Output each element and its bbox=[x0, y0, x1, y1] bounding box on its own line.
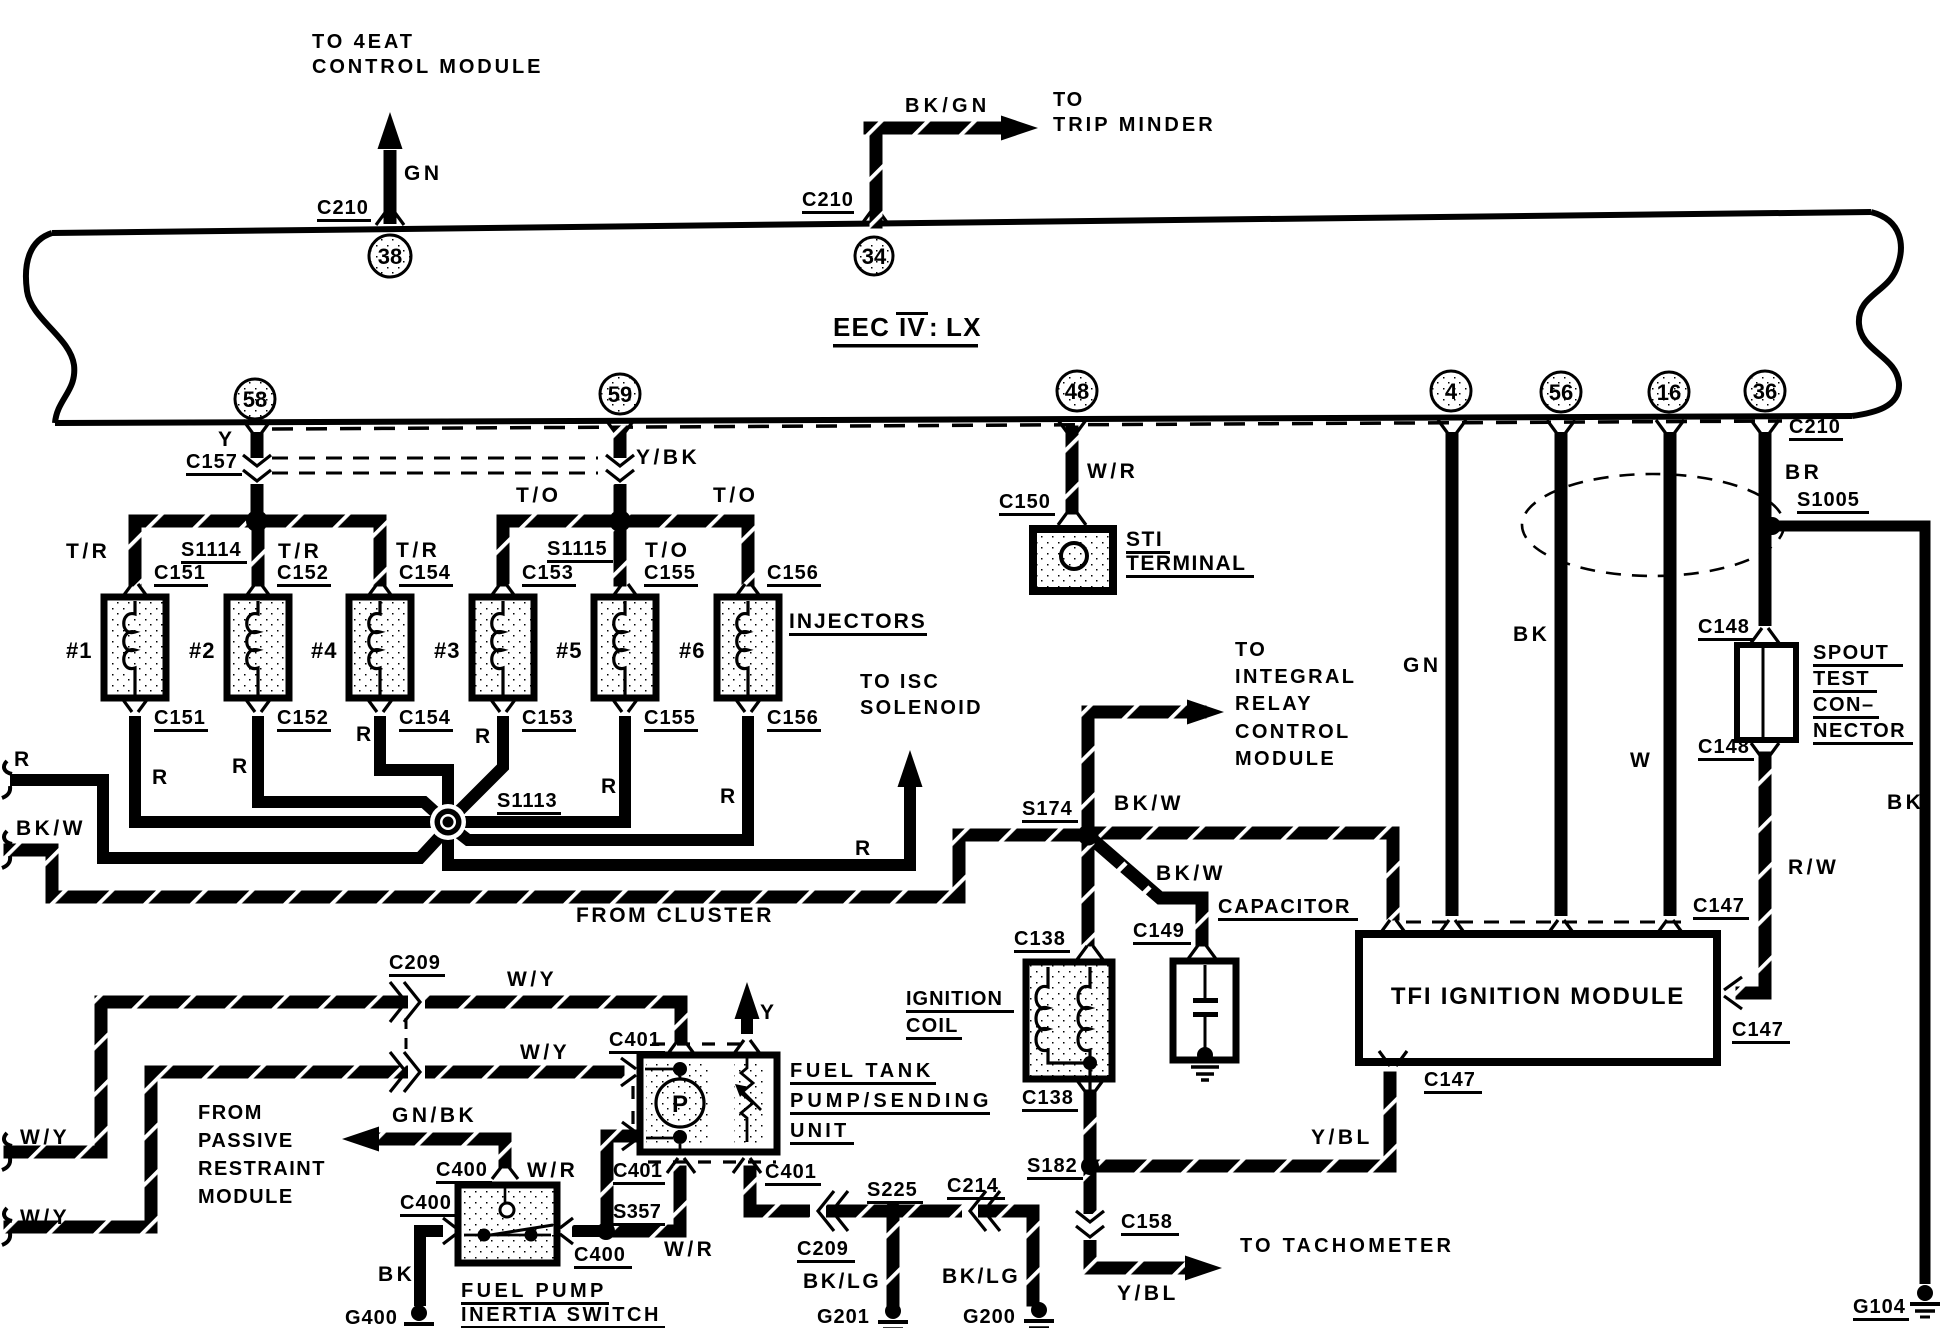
svg-text:C152: C152 bbox=[277, 562, 329, 584]
connector label C138 (bottom) bbox=[1022, 1087, 1078, 1112]
ground label G104 bbox=[1853, 1296, 1909, 1321]
label Y bbox=[218, 428, 236, 451]
wire BK from S1005 to ground G104 bbox=[1770, 526, 1925, 1284]
wire R from injector #4 bbox=[380, 716, 448, 810]
wire GN/BK to passive restraint module bbox=[342, 1127, 512, 1169]
svg-text:C154: C154 bbox=[399, 562, 451, 584]
label R (left entry) bbox=[14, 748, 33, 771]
label R (injector 4) bbox=[356, 723, 375, 746]
connector C400 symbol (switch top) bbox=[492, 1166, 518, 1179]
connector label C149 bbox=[1133, 920, 1191, 945]
wire W from pin 16 to TFI module bbox=[1664, 432, 1677, 916]
svg-text:GN/BK: GN/BK bbox=[392, 1104, 477, 1127]
label W/Y (mid lower) bbox=[520, 1041, 570, 1064]
injector #4 (fuel injector coil) bbox=[349, 597, 411, 698]
svg-text:TRIP MINDER: TRIP MINDER bbox=[1053, 114, 1216, 136]
label TO TRIP MINDER bbox=[1053, 89, 1216, 136]
ground label G200 bbox=[963, 1306, 1019, 1328]
label R (injector 6) bbox=[720, 785, 739, 808]
svg-text:C210: C210 bbox=[1789, 416, 1841, 438]
svg-text:16: 16 bbox=[1657, 380, 1681, 405]
wire T/O bus from splice S1115 bbox=[497, 515, 755, 587]
connector symbol at pin 16 bbox=[1656, 420, 1684, 435]
pin 4 circle on EEC module bbox=[1431, 371, 1471, 411]
capacitor ground bbox=[1191, 1047, 1219, 1080]
svg-text:BK/LG: BK/LG bbox=[803, 1270, 881, 1293]
label W/Y (mid upper) bbox=[507, 968, 557, 991]
ground label G201 bbox=[817, 1306, 873, 1328]
connector C401 symbol (pump output) bbox=[622, 1122, 637, 1150]
EEC IV: LX module label bbox=[833, 312, 982, 348]
svg-text:Y/BL: Y/BL bbox=[1311, 1126, 1373, 1149]
wire W/R inertia switch to S357 stub bbox=[572, 1225, 602, 1237]
connector label C210 (pin 38) bbox=[317, 197, 371, 222]
connector C148 bottom symbol bbox=[1751, 743, 1779, 758]
connector C401 symbols (top) bbox=[667, 1040, 761, 1055]
label R (ISC feed) bbox=[855, 837, 874, 860]
svg-text:C147: C147 bbox=[1693, 895, 1745, 917]
svg-text:C210: C210 bbox=[802, 189, 854, 211]
fuel pump inertia switch bbox=[458, 1185, 557, 1263]
connector symbol at pin 4 bbox=[1438, 420, 1466, 435]
EEC IV module outline (torn-edge box) bbox=[26, 212, 1901, 423]
label #4 bbox=[311, 638, 337, 663]
splice S225 bbox=[884, 1202, 902, 1220]
svg-text:FUEL PUMP: FUEL PUMP bbox=[461, 1280, 607, 1302]
wire W/Y upper from passive area to fuel pump bbox=[2, 996, 688, 1171]
svg-text:S1115: S1115 bbox=[547, 538, 608, 560]
svg-text:CONTROL MODULE: CONTROL MODULE bbox=[312, 56, 543, 78]
connector label C154 (top) bbox=[399, 562, 453, 587]
svg-text:T/O: T/O bbox=[645, 539, 691, 562]
pin 34 circle on EEC module bbox=[855, 237, 893, 275]
svg-text:BK/LG: BK/LG bbox=[942, 1265, 1020, 1288]
pin 16 circle on EEC module bbox=[1649, 372, 1689, 412]
TFI ignition module bbox=[1359, 934, 1717, 1062]
connector label C151 (top) bbox=[154, 562, 208, 587]
label BR bbox=[1785, 461, 1822, 484]
label W/R (inertia switch) bbox=[664, 1238, 715, 1261]
svg-text:W/Y: W/Y bbox=[20, 1206, 70, 1229]
label #6 bbox=[679, 638, 705, 663]
wire BK from inertia switch to ground G400 bbox=[420, 1231, 443, 1306]
label R (injector 1) bbox=[152, 766, 171, 789]
label #3 bbox=[434, 638, 460, 663]
label T/R (injector 1) bbox=[66, 540, 110, 563]
svg-text:C148: C148 bbox=[1698, 736, 1750, 758]
svg-text:#4: #4 bbox=[311, 638, 337, 663]
label BK/W (from cluster) bbox=[16, 817, 86, 840]
wire R from injector #2 bbox=[258, 716, 446, 822]
wire R from injector #5 bbox=[462, 716, 625, 822]
label BK/GN bbox=[905, 95, 990, 117]
svg-text:C214: C214 bbox=[947, 1175, 999, 1197]
connector label C209 (W/Y) bbox=[389, 952, 445, 977]
svg-text:CON–: CON– bbox=[1813, 694, 1875, 716]
splice S357 bbox=[597, 1222, 615, 1240]
svg-text:Y/BK: Y/BK bbox=[636, 446, 700, 469]
connector label C150 bbox=[999, 491, 1055, 516]
label T/R (injector 2) bbox=[278, 540, 322, 563]
connector label C155 (bottom) bbox=[644, 707, 698, 732]
connector label C157 bbox=[186, 451, 242, 476]
svg-text:R: R bbox=[720, 785, 739, 808]
connector symbol at pin 36 bbox=[1751, 420, 1779, 435]
svg-text:#3: #3 bbox=[434, 638, 460, 663]
label TO ISC SOLENOID bbox=[860, 671, 983, 719]
svg-text:MODULE: MODULE bbox=[198, 1186, 294, 1208]
label R (injector 2) bbox=[232, 755, 251, 778]
svg-text:G201: G201 bbox=[817, 1306, 870, 1328]
svg-text:NECTOR: NECTOR bbox=[1813, 720, 1906, 742]
wire W/R from S357 up to sending unit bbox=[608, 1166, 687, 1238]
svg-text:CAPACITOR: CAPACITOR bbox=[1218, 896, 1351, 918]
svg-text:C138: C138 bbox=[1014, 928, 1066, 950]
svg-text:C151: C151 bbox=[154, 562, 206, 584]
injector #5 (fuel injector coil) bbox=[594, 597, 656, 698]
connector label C148 (bottom) bbox=[1698, 736, 1754, 761]
label #1 bbox=[66, 638, 92, 663]
connector label C210 (pin 34) bbox=[802, 189, 854, 214]
connector C154 top symbol bbox=[366, 584, 394, 599]
connector label C158 bbox=[1121, 1211, 1179, 1236]
splice S182 bbox=[1081, 1157, 1099, 1175]
svg-text:R: R bbox=[152, 766, 171, 789]
connector C157 on Y/BK wire bbox=[606, 455, 634, 484]
pin 56 circle on EEC module bbox=[1541, 372, 1581, 412]
label #2 bbox=[189, 638, 215, 663]
wire Y/BL from S182 to tachometer bbox=[1084, 1160, 1223, 1281]
svg-text:R/W: R/W bbox=[1788, 856, 1839, 879]
connector C209 on lower W/Y wire bbox=[390, 1052, 425, 1092]
svg-text:C209: C209 bbox=[389, 952, 441, 974]
svg-text:C158: C158 bbox=[1121, 1211, 1173, 1233]
splice label S225 bbox=[867, 1179, 923, 1204]
svg-text:C155: C155 bbox=[644, 562, 696, 584]
wire T/R bus from splice S1114 bbox=[129, 515, 387, 587]
label T/O (injector 5) bbox=[645, 539, 691, 562]
svg-text:C400: C400 bbox=[436, 1159, 488, 1181]
svg-text:INERTIA SWITCH: INERTIA SWITCH bbox=[461, 1304, 661, 1326]
connector label C152 (top) bbox=[277, 562, 331, 587]
connector C214 on BK/LG wire bbox=[962, 1191, 1000, 1231]
svg-text:W/Y: W/Y bbox=[20, 1126, 70, 1149]
ground label G400 bbox=[345, 1307, 401, 1328]
wire BK/W from S174 to capacitor bbox=[1092, 839, 1209, 947]
svg-text:BK/W: BK/W bbox=[1156, 862, 1226, 885]
connector label C155 (top) bbox=[644, 562, 698, 587]
svg-text:#6: #6 bbox=[679, 638, 705, 663]
connector label C210 (right) bbox=[1789, 416, 1843, 441]
connector C157 on Y wire bbox=[243, 455, 271, 484]
label W (TFI) bbox=[1630, 749, 1653, 772]
svg-text:BK: BK bbox=[1513, 623, 1550, 646]
svg-text:C156: C156 bbox=[767, 562, 819, 584]
svg-text:C401: C401 bbox=[613, 1160, 662, 1182]
label IGNITION COIL bbox=[906, 988, 1014, 1040]
label FROM PASSIVE RESTRAINT MODULE bbox=[198, 1102, 326, 1208]
label STI TERMINAL bbox=[1126, 528, 1254, 578]
svg-text:Y: Y bbox=[218, 428, 236, 451]
svg-text:INJECTORS: INJECTORS bbox=[789, 610, 927, 633]
injector #2 (fuel injector coil) bbox=[227, 597, 289, 698]
label BK (ground wire) bbox=[1887, 791, 1924, 814]
label W/Y (upper left) bbox=[20, 1126, 70, 1149]
wire BK/W from S174 to ignition coil bbox=[1082, 829, 1095, 947]
svg-text:Y: Y bbox=[760, 1001, 778, 1024]
svg-text:GN: GN bbox=[1403, 654, 1442, 677]
ground G200 bbox=[1024, 1302, 1054, 1328]
svg-text:R: R bbox=[475, 725, 494, 748]
svg-text:IGNITION: IGNITION bbox=[906, 988, 1003, 1010]
ground G104 bbox=[1910, 1285, 1940, 1317]
splice label S174 bbox=[1022, 798, 1078, 823]
connector C209 dashed link bbox=[405, 1018, 408, 1058]
connector label C147 (R/W side) bbox=[1732, 1019, 1790, 1044]
svg-text:TO TACHOMETER: TO TACHOMETER bbox=[1240, 1235, 1454, 1257]
svg-text:COIL: COIL bbox=[906, 1015, 959, 1037]
svg-text:C157: C157 bbox=[186, 451, 238, 473]
svg-text:FROM: FROM bbox=[198, 1102, 263, 1124]
wire W/R pump to splice S357 bbox=[601, 1130, 639, 1233]
splice S1005 bbox=[1763, 517, 1781, 535]
splice S1113 junction bbox=[430, 804, 466, 840]
svg-text:C401: C401 bbox=[609, 1029, 661, 1051]
svg-text:C156: C156 bbox=[767, 707, 819, 729]
svg-text:R: R bbox=[601, 775, 620, 798]
svg-text:W/R: W/R bbox=[527, 1159, 578, 1182]
label R/W bbox=[1788, 856, 1839, 879]
connector C150 symbol bbox=[1058, 510, 1086, 525]
splice label S1005 bbox=[1797, 489, 1869, 514]
label Y/BK bbox=[636, 446, 700, 469]
svg-text:W/Y: W/Y bbox=[507, 968, 557, 991]
label Y (sending unit) bbox=[760, 1001, 778, 1024]
connector symbol at pin 58 bbox=[243, 420, 271, 435]
svg-text:BR: BR bbox=[1785, 461, 1822, 484]
fuel pump motor P bbox=[645, 1062, 704, 1150]
svg-text:C151: C151 bbox=[154, 707, 206, 729]
SPOUT test connector bbox=[1737, 645, 1796, 740]
wire BK/GN from pin 34 to trip minder bbox=[864, 116, 1039, 229]
label BK/W (to capacitor) bbox=[1156, 862, 1226, 885]
connector C210 pin 34 symbol bbox=[861, 210, 889, 225]
splice label S1114 bbox=[181, 539, 247, 564]
svg-text:R: R bbox=[14, 748, 33, 771]
svg-text:C148: C148 bbox=[1698, 616, 1750, 638]
wire R/W from SPOUT to TFI module bbox=[1736, 752, 1772, 1000]
pin 58 circle on EEC module bbox=[235, 379, 275, 419]
svg-text:GN: GN bbox=[404, 162, 443, 185]
label GN (TFI) bbox=[1403, 654, 1442, 677]
svg-text:FROM CLUSTER: FROM CLUSTER bbox=[576, 904, 774, 927]
svg-text:LX: LX bbox=[946, 312, 982, 342]
connector C147 dashed line bbox=[1406, 921, 1688, 924]
wire R from injector #3 bbox=[451, 716, 503, 819]
svg-text:38: 38 bbox=[378, 244, 402, 269]
wire Y from pin 58 bbox=[251, 432, 264, 521]
svg-text:S357: S357 bbox=[613, 1201, 661, 1223]
connector C153 top symbol bbox=[489, 584, 517, 599]
svg-text:FUEL TANK: FUEL TANK bbox=[790, 1060, 934, 1082]
splice label S357 bbox=[613, 1201, 665, 1226]
label INJECTORS bbox=[789, 610, 927, 636]
pin 38 circle on EEC module bbox=[369, 235, 411, 277]
svg-text:S1114: S1114 bbox=[181, 539, 242, 561]
label BK/LG (right) bbox=[942, 1265, 1020, 1288]
svg-text:#5: #5 bbox=[556, 638, 582, 663]
label BK/LG (left) bbox=[803, 1270, 881, 1293]
connector symbol at pin 59 bbox=[606, 420, 634, 435]
splice S1114 bbox=[246, 510, 268, 532]
svg-text:W/R: W/R bbox=[1087, 460, 1138, 483]
wire R from injector #1 bbox=[135, 716, 436, 822]
connector label C151 (bottom) bbox=[154, 707, 208, 732]
svg-text:R: R bbox=[356, 723, 375, 746]
connector label C156 (top) bbox=[767, 562, 821, 587]
connector C148 top symbol bbox=[1751, 628, 1779, 643]
svg-text:R: R bbox=[855, 837, 874, 860]
connector C158 on tachometer wire bbox=[1076, 1211, 1104, 1240]
svg-text:PUMP/SENDING: PUMP/SENDING bbox=[790, 1090, 992, 1112]
svg-text:PASSIVE: PASSIVE bbox=[198, 1130, 294, 1152]
connector C157 dashed link lines bbox=[272, 458, 598, 473]
svg-text:EEC: EEC bbox=[833, 312, 890, 342]
connector C153 bottom symbol bbox=[489, 697, 517, 712]
svg-text:BK: BK bbox=[378, 1263, 415, 1286]
label FUEL TANK PUMP/SENDING UNIT bbox=[790, 1060, 992, 1145]
svg-text:C155: C155 bbox=[644, 707, 696, 729]
wire GN from pin 4 to TFI module bbox=[1446, 432, 1459, 916]
connector label C138 (top) bbox=[1014, 928, 1070, 953]
svg-text:TO ISC: TO ISC bbox=[860, 671, 940, 693]
svg-text:IV: IV bbox=[899, 312, 926, 342]
svg-text:S182: S182 bbox=[1027, 1155, 1078, 1177]
svg-text:STI: STI bbox=[1126, 528, 1163, 551]
label FUEL PUMP INERTIA SWITCH bbox=[461, 1280, 665, 1328]
svg-text:P: P bbox=[672, 1091, 688, 1118]
label R (injector 5) bbox=[601, 775, 620, 798]
wire Y/BK from pin 59 bbox=[614, 426, 627, 528]
svg-text:C152: C152 bbox=[277, 707, 329, 729]
label BK/W (to TFI) bbox=[1114, 792, 1184, 815]
svg-text:G400: G400 bbox=[345, 1307, 398, 1328]
wire W/R from pin 48 to STI terminal bbox=[1066, 426, 1079, 515]
svg-text:56: 56 bbox=[1549, 380, 1573, 405]
label W/R (pump) bbox=[527, 1159, 578, 1182]
svg-text:TFI IGNITION MODULE: TFI IGNITION MODULE bbox=[1391, 983, 1685, 1010]
svg-text:TERMINAL: TERMINAL bbox=[1126, 552, 1247, 575]
svg-text:C153: C153 bbox=[522, 707, 574, 729]
label GN bbox=[404, 162, 443, 185]
label W/Y (lower left) bbox=[20, 1206, 70, 1229]
svg-text:BK/GN: BK/GN bbox=[905, 95, 990, 117]
svg-text:S174: S174 bbox=[1022, 798, 1073, 820]
label T/R (injector 4) bbox=[396, 539, 440, 562]
connector C400 symbol (switch left) bbox=[443, 1218, 456, 1244]
splice S174 bbox=[1078, 825, 1099, 846]
connector symbol at pin 48 bbox=[1058, 420, 1086, 435]
connector C209 on upper W/Y wire bbox=[390, 982, 425, 1022]
connector label C401 (bottom left) bbox=[613, 1160, 665, 1185]
svg-text:W/R: W/R bbox=[664, 1238, 715, 1261]
svg-text:SPOUT: SPOUT bbox=[1813, 642, 1889, 664]
connector symbol at pin 56 bbox=[1547, 420, 1575, 435]
connector label C214 bbox=[947, 1175, 1005, 1200]
wire R from injector #6 bbox=[450, 716, 748, 840]
svg-text:CONTROL: CONTROL bbox=[1235, 721, 1351, 743]
connector C401 symbols (bottom) bbox=[667, 1158, 761, 1173]
connector label C401 (bottom right) bbox=[765, 1161, 821, 1186]
connector C151 bottom symbol bbox=[121, 697, 149, 712]
connector C154 bottom symbol bbox=[366, 697, 394, 712]
label Y/BL (to TFI) bbox=[1311, 1126, 1373, 1149]
svg-text:C154: C154 bbox=[399, 707, 451, 729]
svg-text:T/O: T/O bbox=[516, 484, 562, 507]
label T/O (injector 3) bbox=[516, 484, 562, 507]
connector label C401 (top) bbox=[609, 1029, 665, 1054]
wire BK/W from S174 to integral relay control module bbox=[1082, 700, 1225, 842]
svg-text::: : bbox=[929, 312, 938, 342]
svg-text:C147: C147 bbox=[1424, 1069, 1476, 1091]
svg-text:R: R bbox=[232, 755, 251, 778]
connector label C152 (bottom) bbox=[277, 707, 331, 732]
label R (injector 3) bbox=[475, 725, 494, 748]
svg-text:BK/W: BK/W bbox=[16, 817, 86, 840]
wire BK/W from cluster bbox=[2, 829, 1095, 904]
svg-text:MODULE: MODULE bbox=[1235, 748, 1336, 770]
label TO 4EAT CONTROL MODULE bbox=[312, 31, 543, 78]
svg-text:58: 58 bbox=[243, 387, 267, 412]
svg-text:C400: C400 bbox=[400, 1192, 452, 1214]
svg-text:W/Y: W/Y bbox=[520, 1041, 570, 1064]
svg-text:36: 36 bbox=[1753, 379, 1777, 404]
splice label S1115 bbox=[547, 538, 613, 563]
svg-text:Y/BL: Y/BL bbox=[1117, 1282, 1179, 1305]
injector #6 (fuel injector coil) bbox=[717, 597, 779, 698]
wire BR from pin 36 bbox=[1759, 432, 1772, 626]
svg-text:W: W bbox=[1630, 749, 1653, 772]
label SPOUT TEST CONNECTOR bbox=[1813, 642, 1913, 745]
injector #3 (fuel injector coil) bbox=[472, 597, 534, 698]
svg-text:C138: C138 bbox=[1022, 1087, 1074, 1109]
svg-text:TO 4EAT: TO 4EAT bbox=[312, 31, 415, 53]
pin 36 circle on EEC module bbox=[1745, 371, 1785, 411]
connector label C400 (switch output) bbox=[574, 1244, 632, 1269]
wire BK/W coil secondary to S182 bbox=[1084, 1090, 1097, 1173]
svg-text:BK/W: BK/W bbox=[1114, 792, 1184, 815]
capacitor bbox=[1173, 961, 1236, 1060]
connector label C148 (top) bbox=[1698, 616, 1754, 641]
connector C138 bottom symbol bbox=[1076, 1079, 1104, 1094]
ignition coil bbox=[1026, 962, 1112, 1100]
connector label C147 (harness) bbox=[1693, 895, 1749, 920]
svg-text:G200: G200 bbox=[963, 1306, 1016, 1328]
connector C401 symbol (left) bbox=[621, 1058, 636, 1086]
label CAPACITOR bbox=[1218, 896, 1358, 921]
svg-text:G104: G104 bbox=[1853, 1296, 1906, 1318]
fuel tank pump/sending unit box bbox=[640, 1055, 777, 1152]
label TO TACHOMETER bbox=[1240, 1235, 1454, 1257]
ground G201 bbox=[878, 1303, 908, 1328]
connector label C400 (switch left) bbox=[400, 1192, 456, 1217]
connector C156 bottom symbol bbox=[734, 697, 762, 712]
svg-text:UNIT: UNIT bbox=[790, 1120, 849, 1142]
connector C147 pin symbols at TFI top bbox=[1379, 920, 1684, 935]
wire BK/W from S174 to TFI ignition module bbox=[1082, 827, 1400, 921]
connector C209 on BK/LG wire bbox=[810, 1191, 848, 1231]
connector C147 symbol (TFI bottom) bbox=[1379, 1051, 1407, 1066]
